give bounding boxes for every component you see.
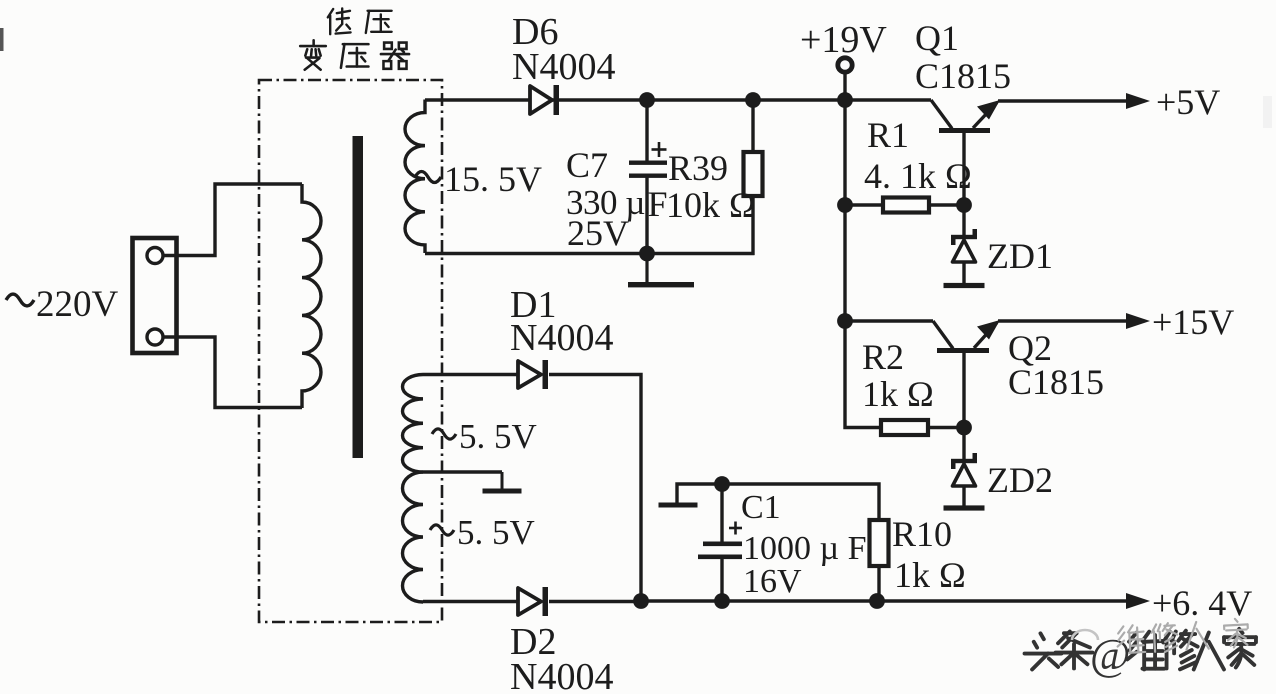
wire node G to Q2 collector — [845, 319, 933, 322]
watermark ghost 维修人家 — [1072, 630, 1098, 640]
svg-text:+5V: +5V — [1156, 82, 1220, 122]
secondary winding S2 lower (5.5V) — [403, 472, 424, 602]
+6.4V arrow — [1126, 593, 1150, 609]
secondary winding S2 upper (5.5V) — [402, 375, 423, 473]
C7 plus sign — [652, 148, 667, 151]
C7 top plate — [629, 161, 667, 165]
node B junction — [745, 92, 761, 108]
wire S2 bottom to D2 — [423, 600, 520, 603]
plug terminal bottom — [147, 329, 163, 345]
scan artifact left edge — [0, 28, 4, 51]
svg-text:15. 5V: 15. 5V — [444, 159, 542, 199]
secondary winding S1 (15.5V) — [405, 100, 425, 254]
wire Q1 emitter to +5V — [998, 99, 1127, 102]
capacitor C7 top lead — [645, 100, 648, 161]
svg-text:ZD2: ZD2 — [987, 460, 1053, 500]
svg-text:R1: R1 — [867, 115, 909, 155]
resistor R10 bottom lead — [877, 565, 880, 601]
wire node L to R10 corner — [722, 484, 879, 521]
wire node D to R39 — [647, 252, 755, 255]
resistor R1 — [883, 198, 929, 213]
plug terminal top — [147, 248, 163, 264]
node I junction — [633, 593, 649, 609]
svg-text:R39: R39 — [668, 148, 728, 188]
resistor R39 bottom lead — [751, 195, 754, 255]
diode D2 — [518, 588, 541, 615]
svg-text:16V: 16V — [743, 563, 802, 600]
svg-text:5. 5V: 5. 5V — [457, 513, 535, 552]
label ~220V — [6, 294, 34, 306]
resistor R10 — [870, 520, 889, 566]
svg-text:5. 5V: 5. 5V — [459, 417, 537, 456]
node F junction — [956, 197, 972, 213]
wire ZD1 to ground — [962, 262, 965, 285]
wire +19V to node C — [843, 73, 846, 100]
label ~5. 5V upper — [432, 429, 456, 439]
ground below ZD1 — [963, 262, 966, 286]
center tap wire — [423, 470, 502, 473]
label 低压 (low voltage) line 1 — [328, 8, 351, 34]
wire node H to ZD2 — [962, 428, 965, 461]
svg-text:N4004: N4004 — [510, 656, 613, 694]
svg-text:C1815: C1815 — [1008, 362, 1104, 402]
svg-text:N4004: N4004 — [512, 46, 615, 88]
zener diode ZD2 — [951, 459, 977, 463]
diode D1 — [518, 361, 541, 388]
svg-text:25V: 25V — [567, 213, 629, 253]
transistor Q1 base lead — [962, 131, 965, 205]
C7 bottom lead — [645, 177, 648, 254]
wire R2 to node H — [927, 426, 964, 429]
transistor Q1 emitter with arrow — [973, 103, 997, 129]
wire node E to R1 — [845, 203, 884, 206]
svg-text:R10: R10 — [892, 514, 952, 554]
ground below node D — [645, 254, 648, 286]
ground below ZD2 — [963, 486, 966, 508]
wire Q2 emitter to +15V — [998, 319, 1127, 322]
wire node G down to R2 — [845, 321, 882, 428]
wire node A to node B — [647, 98, 753, 101]
resistor R2 — [881, 420, 928, 435]
node G junction — [837, 313, 853, 329]
node D junction — [639, 246, 655, 262]
svg-text:@: @ — [1090, 630, 1131, 679]
node L junction — [714, 476, 730, 492]
svg-text:1k Ω: 1k Ω — [862, 374, 934, 414]
node K junction — [869, 593, 885, 609]
transistor Q2 base bar — [937, 348, 989, 353]
svg-text:R2: R2 — [862, 337, 904, 377]
wire plug top to primary top — [163, 184, 302, 256]
node C junction — [837, 92, 853, 108]
svg-text:10k Ω: 10k Ω — [666, 185, 756, 225]
C1 plus sign — [729, 527, 742, 530]
svg-text:4. 1k Ω: 4. 1k Ω — [864, 156, 972, 196]
wire D2 to node I — [549, 600, 641, 603]
svg-text:+19V: +19V — [800, 19, 887, 61]
wire node K to +6.4V — [877, 599, 1127, 602]
wire node C down to node E — [843, 100, 846, 205]
resistor R39 — [744, 152, 763, 196]
transistor Q2 base lead — [962, 351, 965, 428]
C1 bottom plate — [698, 555, 742, 560]
svg-text:ZD1: ZD1 — [987, 236, 1053, 276]
node A junction — [639, 92, 655, 108]
transistor Q1 base bar — [939, 128, 990, 133]
transformer dash-dot boundary box — [259, 80, 442, 622]
AC plug / input connector — [133, 238, 177, 353]
C7 bottom plate — [629, 174, 667, 178]
wire node B to node C — [753, 98, 845, 101]
+5V arrow — [1126, 93, 1150, 109]
primary winding P1 — [302, 184, 321, 408]
svg-text:N4004: N4004 — [510, 317, 613, 359]
svg-text:+15V: +15V — [1152, 302, 1234, 342]
wire S2 top to D1 — [423, 373, 520, 376]
watermark 头条@维修人家 — [1025, 633, 1062, 669]
svg-text:+6. 4V: +6. 4V — [1152, 583, 1252, 623]
svg-text:C1815: C1815 — [915, 56, 1011, 96]
C1 bottom lead — [720, 558, 723, 601]
wire node E down to node G — [843, 205, 846, 321]
node H junction — [956, 420, 972, 436]
svg-text:1k Ω: 1k Ω — [894, 555, 966, 595]
center tap ground — [501, 472, 504, 491]
wire node F to ZD1 — [962, 205, 965, 236]
+19V terminal — [838, 58, 852, 72]
+15V arrow — [1126, 313, 1150, 329]
node J junction — [714, 593, 730, 609]
transformer core — [353, 136, 364, 458]
wire D1 to corner and down — [549, 375, 641, 602]
resistor R39 top lead — [751, 100, 754, 153]
transistor Q2 collector — [933, 321, 953, 349]
svg-text:Q1: Q1 — [915, 18, 959, 58]
label 变压器 (transformer) line 2 — [300, 40, 326, 69]
wire node C to Q1 collector — [845, 98, 931, 101]
wire S1 top to node A — [425, 98, 645, 101]
wire primary bottom to plug bottom — [163, 337, 302, 408]
C1 top-left ground hook — [677, 484, 722, 503]
transistor Q1 collector — [931, 100, 952, 129]
transistor Q2 emitter with arrow — [974, 323, 997, 349]
wire R1 to node F — [928, 203, 964, 206]
diode D6 — [530, 86, 552, 114]
node E junction — [837, 197, 853, 213]
capacitor C1 top lead — [720, 484, 723, 542]
wire S1 bottom to node D — [425, 252, 647, 255]
svg-text:1000 µ F: 1000 µ F — [743, 530, 867, 567]
label ~5. 5V lower — [430, 525, 454, 535]
svg-text:220V: 220V — [36, 284, 119, 325]
wire ZD2 to ground — [962, 486, 965, 508]
label ~15. 5V — [415, 171, 441, 182]
C1 top plate — [703, 542, 742, 547]
wire node I to node J — [641, 599, 722, 602]
svg-text:C7: C7 — [566, 145, 608, 185]
zener diode ZD1 — [951, 235, 977, 239]
svg-text:C1: C1 — [741, 489, 781, 526]
svg-text:F: F — [648, 184, 668, 224]
wire node J to node K — [722, 599, 877, 602]
